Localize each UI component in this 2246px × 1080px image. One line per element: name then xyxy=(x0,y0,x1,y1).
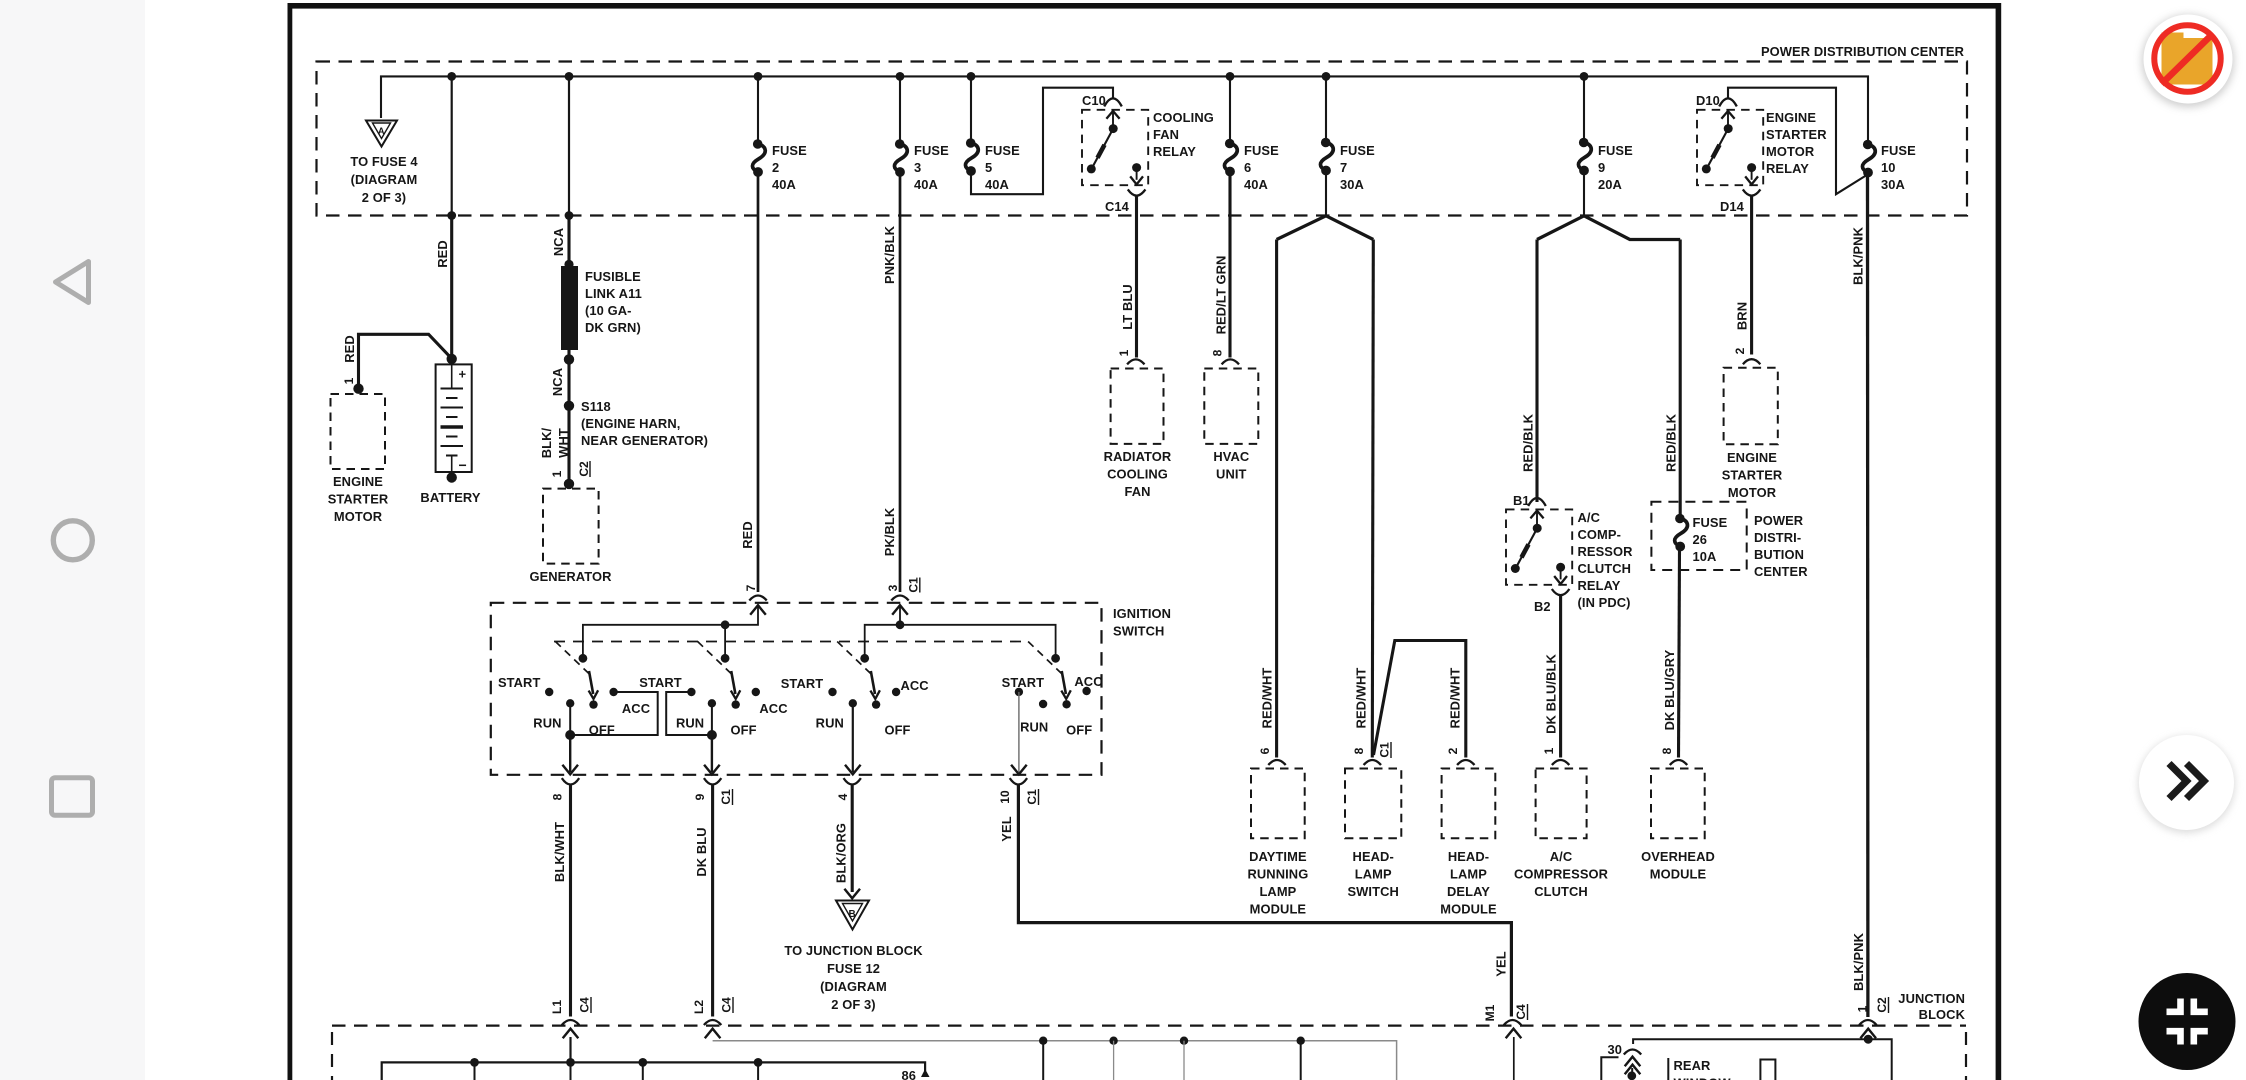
connector arc ignition pin3 xyxy=(891,596,908,601)
node pdc-exit NCA xyxy=(565,211,574,220)
svg-text:S118: S118 xyxy=(581,399,611,414)
svg-text:B: B xyxy=(849,909,856,920)
fuse 26 10A xyxy=(1675,514,1688,552)
svg-text:FUSE: FUSE xyxy=(985,143,1020,158)
svg-text:SWITCH: SWITCH xyxy=(1347,884,1398,899)
svg-text:2 OF 3): 2 OF 3) xyxy=(362,190,406,205)
svg-text:RED/WHT: RED/WHT xyxy=(1448,668,1463,729)
svg-text:FUSIBLE: FUSIBLE xyxy=(585,269,641,284)
wire RED/BLK to A/C compressor clutch relay xyxy=(1535,240,1538,503)
node bus-F7 xyxy=(1322,72,1331,81)
svg-text:ENGINE: ENGINE xyxy=(1766,110,1816,125)
svg-text:8: 8 xyxy=(551,793,565,800)
svg-text:IGNITION: IGNITION xyxy=(1113,606,1171,621)
wire M1 continues down xyxy=(1513,1037,1515,1080)
svg-text:COMPRESSOR: COMPRESSOR xyxy=(1514,867,1609,882)
android recents button xyxy=(52,778,93,816)
svg-text:ACC: ACC xyxy=(900,678,928,693)
svg-text:STARTER: STARTER xyxy=(328,492,389,507)
svg-text:RADIATOR: RADIATOR xyxy=(1104,449,1172,464)
svg-text:HEAD-: HEAD- xyxy=(1353,849,1394,864)
fuse 7 30A xyxy=(1325,76,1327,141)
svg-text:RELAY: RELAY xyxy=(1578,578,1621,593)
svg-text:2: 2 xyxy=(1446,747,1460,754)
svg-text:10: 10 xyxy=(998,790,1012,804)
svg-text:D14: D14 xyxy=(1720,199,1745,214)
android back button xyxy=(56,262,89,303)
svg-text:(ENGINE HARN,: (ENGINE HARN, xyxy=(581,416,680,431)
svg-text:8: 8 xyxy=(1660,747,1674,754)
splice S118 xyxy=(564,401,574,411)
svg-text:LAMP: LAMP xyxy=(1355,867,1392,882)
fuse 10 30A xyxy=(1862,140,1875,178)
svg-text:ENGINE: ENGINE xyxy=(1727,450,1777,465)
svg-text:C1: C1 xyxy=(1025,789,1039,805)
wire BLK/ORG ignition to off-page B xyxy=(851,785,854,892)
svg-text:40A: 40A xyxy=(914,177,938,192)
a/c compressor clutch box xyxy=(1552,760,1569,765)
svg-text:MODULE: MODULE xyxy=(1650,867,1707,882)
node jb bus L1 xyxy=(566,1058,575,1067)
svg-text:4: 4 xyxy=(836,793,850,800)
double-chevron icon xyxy=(2169,764,2187,799)
node ignition feed w2 tap xyxy=(721,620,730,629)
rear window defogger box fragments xyxy=(1667,1058,1669,1080)
fab collapse button disc xyxy=(2139,973,2236,1070)
wire RED bus to battery xyxy=(451,76,453,215)
svg-text:40A: 40A xyxy=(1244,177,1268,192)
wire DK BLU/BLK relay B2 to a/c clutch xyxy=(1559,596,1562,758)
svg-text:B2: B2 xyxy=(1534,599,1551,614)
android sidebar xyxy=(0,0,145,1080)
svg-text:START: START xyxy=(639,675,682,690)
svg-text:RED: RED xyxy=(740,521,755,549)
svg-text:YEL: YEL xyxy=(999,816,1014,841)
svg-text:1: 1 xyxy=(550,470,564,477)
wire RED battery to engine starter motor xyxy=(359,334,453,388)
svg-text:BRN: BRN xyxy=(1735,302,1750,330)
svg-text:7: 7 xyxy=(1340,160,1347,175)
svg-text:FUSE: FUSE xyxy=(1881,143,1916,158)
page frame right border xyxy=(1996,3,2002,1080)
svg-text:FUSE: FUSE xyxy=(1340,143,1375,158)
svg-text:RUN: RUN xyxy=(816,716,844,731)
svg-text:6: 6 xyxy=(1244,160,1251,175)
svg-text:FUSE: FUSE xyxy=(772,143,807,158)
radiator cooling fan box xyxy=(1111,369,1164,444)
svg-text:C4: C4 xyxy=(1514,1004,1528,1020)
svg-text:REAR: REAR xyxy=(1674,1058,1712,1073)
svg-text:30: 30 xyxy=(1607,1042,1622,1057)
wire LT BLU relay C14 to radiator cooling fan xyxy=(1135,196,1138,358)
svg-text:JUNCTION: JUNCTION xyxy=(1898,991,1965,1006)
svg-text:LAMP: LAMP xyxy=(1450,867,1487,882)
svg-text:(IN PDC): (IN PDC) xyxy=(1578,595,1631,610)
svg-text:BLK/PNK: BLK/PNK xyxy=(1851,226,1866,285)
connector arc ignition pin10 out xyxy=(1010,778,1027,784)
svg-text:RED/BLK: RED/BLK xyxy=(1521,413,1536,472)
svg-text:DELAY: DELAY xyxy=(1447,884,1490,899)
node bus-F3 xyxy=(896,72,905,81)
wire RED/WHT to head-lamp switch xyxy=(1372,240,1373,758)
svg-text:3: 3 xyxy=(886,584,900,591)
svg-text:FUSE 12: FUSE 12 xyxy=(827,961,880,976)
fab next-page button halo xyxy=(2138,736,2235,833)
node battery plus terminal xyxy=(447,354,457,364)
arrow into ignition pin3 xyxy=(892,605,908,615)
svg-text:+: + xyxy=(459,367,467,382)
wire RED/WHT to daytime running lamp module xyxy=(1275,240,1278,758)
svg-text:NCA: NCA xyxy=(551,228,566,256)
junction block dashed boundary xyxy=(332,1024,1966,1026)
node bus-NCA xyxy=(565,72,574,81)
wire RED fuse2 to ignition switch pin7 xyxy=(757,174,760,592)
svg-text:BLOCK: BLOCK xyxy=(1919,1007,1966,1022)
svg-text:HVAC: HVAC xyxy=(1213,449,1249,464)
node jb bus 4 xyxy=(754,1058,763,1067)
node bus-F9 xyxy=(1580,72,1589,81)
svg-text:DISTRI-: DISTRI- xyxy=(1754,530,1801,545)
svg-text:LT BLU: LT BLU xyxy=(1120,284,1135,329)
svg-text:A/C: A/C xyxy=(1578,510,1601,525)
power distribution center (fuse 26) box xyxy=(1651,502,1746,570)
svg-text:RED/BLK: RED/BLK xyxy=(1664,413,1679,472)
connector arc ignition pin7 xyxy=(749,596,766,601)
wire DK BLU/GRY fuse26 to overhead module xyxy=(1679,548,1680,758)
svg-text:BLK/PNK: BLK/PNK xyxy=(1851,932,1866,991)
svg-text:A/C: A/C xyxy=(1550,849,1573,864)
svg-text:SWITCH: SWITCH xyxy=(1113,624,1164,639)
svg-text:BATTERY: BATTERY xyxy=(420,490,480,505)
fuse 3 40A xyxy=(899,76,901,143)
svg-text:FUSE: FUSE xyxy=(1598,143,1633,158)
svg-text:PK/BLK: PK/BLK xyxy=(882,507,897,556)
svg-text:ENGINE: ENGINE xyxy=(333,474,383,489)
svg-text:20A: 20A xyxy=(1598,177,1622,192)
engine starter motor (right) box xyxy=(1724,368,1778,444)
svg-text:RUN: RUN xyxy=(676,716,704,731)
connector arc M1 xyxy=(1504,1020,1521,1025)
svg-text:RED: RED xyxy=(435,240,450,268)
small component stub xyxy=(1760,1060,1775,1080)
svg-text:ACC: ACC xyxy=(622,701,650,716)
svg-text:OFF: OFF xyxy=(1066,723,1092,738)
wire BLK/WHT ignition to junction block L1 xyxy=(569,785,572,1017)
android home button xyxy=(53,521,92,560)
battery xyxy=(436,364,472,472)
ignition feed wire 2 xyxy=(865,606,900,655)
svg-text:NCA: NCA xyxy=(550,368,565,396)
svg-text:RED/WHT: RED/WHT xyxy=(1260,668,1275,729)
overhead module box xyxy=(1670,760,1687,765)
svg-text:RED/WHT: RED/WHT xyxy=(1354,668,1369,729)
svg-text:FAN: FAN xyxy=(1153,127,1179,142)
svg-text:RED: RED xyxy=(342,335,357,363)
fuse 5 40A xyxy=(970,76,972,142)
node ignition feed w3 tap xyxy=(896,620,905,629)
wire BRN relay D14 to engine starter motor xyxy=(1750,196,1753,355)
arrow into ignition pin7 xyxy=(750,605,766,615)
engine starter motor (left) box xyxy=(331,394,386,469)
svg-text:RUN: RUN xyxy=(1020,720,1048,735)
node jb bus 3 xyxy=(638,1058,647,1067)
svg-text:26: 26 xyxy=(1693,532,1708,547)
fuse 6 40A xyxy=(1229,76,1231,142)
node generator terminal xyxy=(564,479,574,489)
fuse 9 20A xyxy=(1583,76,1585,141)
svg-text:ACC: ACC xyxy=(759,701,787,716)
svg-text:START: START xyxy=(781,676,824,691)
junction block thin bus from L2 xyxy=(713,1041,1397,1080)
svg-text:D10: D10 xyxy=(1696,93,1720,108)
svg-text:40A: 40A xyxy=(985,177,1009,192)
node fusible link bottom xyxy=(564,354,574,364)
svg-text:C2: C2 xyxy=(577,461,591,477)
svg-text:ACC: ACC xyxy=(1074,674,1102,689)
connector arc radiator cooling fan xyxy=(1127,359,1144,364)
svg-text:RESSOR: RESSOR xyxy=(1578,544,1634,559)
svg-text:MODULE: MODULE xyxy=(1440,902,1497,917)
svg-text:MOTOR: MOTOR xyxy=(334,509,383,524)
svg-text:POWER: POWER xyxy=(1754,513,1804,528)
generator box xyxy=(543,489,599,564)
svg-text:(DIAGRAM: (DIAGRAM xyxy=(351,172,418,187)
svg-text:8: 8 xyxy=(1352,747,1366,754)
wire RED/BLK to fuse 26 xyxy=(1679,240,1682,520)
svg-text:DK BLU/GRY: DK BLU/GRY xyxy=(1662,649,1677,730)
node thin bus a xyxy=(1039,1037,1047,1045)
wire fuse9 split xyxy=(1583,173,1585,216)
relay U-C10 cooling fan relay xyxy=(1082,98,1148,195)
power distribution center dashed box xyxy=(317,62,1968,216)
svg-text:DK BLU/BLK: DK BLU/BLK xyxy=(1544,654,1559,734)
fusible link A11 xyxy=(561,266,578,350)
connector arc ignition pin8 out xyxy=(562,778,579,784)
svg-text:C10: C10 xyxy=(1082,93,1106,108)
node bus-F5 xyxy=(967,72,976,81)
off-page connector A to fuse 4 xyxy=(366,121,397,147)
node bus-F6 xyxy=(1226,72,1235,81)
connector arc ignition pin4 out xyxy=(844,778,861,784)
svg-text:YEL: YEL xyxy=(1494,951,1509,976)
svg-text:8: 8 xyxy=(1211,349,1225,356)
svg-text:BUTION: BUTION xyxy=(1754,547,1804,562)
junction block lower-left bus xyxy=(382,1062,925,1080)
svg-text:C1: C1 xyxy=(907,577,921,593)
wire PNK/BLK fuse3 to ignition switch pin3 xyxy=(899,174,902,592)
svg-text:OVERHEAD: OVERHEAD xyxy=(1641,849,1715,864)
fuse 2 40A xyxy=(757,76,759,143)
node thin bus d xyxy=(1297,1037,1305,1045)
svg-text:5: 5 xyxy=(985,160,992,175)
connector arc HVAC unit xyxy=(1222,359,1239,364)
svg-text:OFF: OFF xyxy=(731,723,757,738)
svg-text:HEAD-: HEAD- xyxy=(1448,849,1489,864)
svg-text:FUSE: FUSE xyxy=(1244,143,1279,158)
node starter terminal xyxy=(353,384,363,394)
wire RED/LT GRN fuse6 to HVAC unit xyxy=(1228,174,1231,358)
svg-text:10: 10 xyxy=(1881,160,1896,175)
off-page connector B to junction block fuse 12 xyxy=(836,901,869,930)
svg-text:9: 9 xyxy=(1598,160,1605,175)
node BLK/PNK junction xyxy=(1867,1036,1869,1039)
ignition feed wire 1 xyxy=(583,606,758,655)
red prohibition slash xyxy=(2162,34,2214,85)
svg-text:C1: C1 xyxy=(719,789,733,805)
svg-text:RUN: RUN xyxy=(533,716,561,731)
svg-text:UNIT: UNIT xyxy=(1216,467,1246,482)
svg-text:40A: 40A xyxy=(772,177,796,192)
svg-text:MOTOR: MOTOR xyxy=(1728,485,1777,500)
node pdc-exit RED xyxy=(447,211,456,220)
top feed bus wire xyxy=(381,76,1868,141)
svg-text:CLUTCH: CLUTCH xyxy=(1578,561,1632,576)
wire L1 into junction bus xyxy=(569,1037,571,1062)
svg-text:MODULE: MODULE xyxy=(1250,902,1307,917)
svg-text:RELAY: RELAY xyxy=(1766,161,1809,176)
connector arc ignition pin9 out xyxy=(704,778,721,784)
connector arc L2 xyxy=(704,1020,721,1025)
svg-text:STARTER: STARTER xyxy=(1722,468,1783,483)
fab folder-hide button disc xyxy=(2144,15,2233,104)
svg-text:COOLING: COOLING xyxy=(1153,110,1214,125)
svg-text:C14: C14 xyxy=(1105,199,1130,214)
wire YEL ignition to junction block M1 xyxy=(1018,785,1511,1017)
daytime running lamp module box xyxy=(1268,760,1285,765)
node bus-RED xyxy=(447,72,456,81)
svg-text:BLK/: BLK/ xyxy=(539,427,554,458)
head-lamp switch box xyxy=(1364,760,1381,765)
HVAC unit box xyxy=(1204,369,1258,444)
ignition wafer 2 xyxy=(639,642,787,775)
svg-text:1: 1 xyxy=(342,377,356,384)
svg-text:MOTOR: MOTOR xyxy=(1766,144,1815,159)
ignition wafer 4 xyxy=(1002,642,1103,775)
svg-text:POWER DISTRIBUTION CENTER: POWER DISTRIBUTION CENTER xyxy=(1761,44,1965,59)
svg-text:9: 9 xyxy=(693,793,707,800)
svg-text:M1: M1 xyxy=(1483,1004,1497,1021)
svg-text:2: 2 xyxy=(772,160,779,175)
svg-text:RELAY: RELAY xyxy=(1153,144,1196,159)
ignition wafer 3 xyxy=(781,642,929,775)
svg-text:10A: 10A xyxy=(1693,549,1717,564)
ignition switch box xyxy=(491,603,1102,775)
svg-text:BLK/ORG: BLK/ORG xyxy=(834,823,849,883)
svg-text:C4: C4 xyxy=(578,997,592,1013)
mechanical linkage dashed line xyxy=(554,641,1029,643)
svg-text:L1: L1 xyxy=(550,1000,564,1014)
svg-text:1: 1 xyxy=(1542,747,1556,754)
svg-text:A: A xyxy=(378,126,385,136)
svg-text:CLUTCH: CLUTCH xyxy=(1534,884,1588,899)
folder icon xyxy=(2162,33,2213,85)
svg-text:COMP-: COMP- xyxy=(1578,527,1621,542)
svg-text:30A: 30A xyxy=(1340,177,1364,192)
svg-text:B1: B1 xyxy=(1513,493,1530,508)
svg-text:FUSE: FUSE xyxy=(1693,515,1728,530)
wire DK BLU ignition to junction block L2 xyxy=(711,785,714,1017)
wire BLK/PNK fuse10 to junction block xyxy=(1866,175,1870,1017)
svg-text:FUSE: FUSE xyxy=(914,143,949,158)
svg-text:COOLING: COOLING xyxy=(1107,467,1168,482)
relay U-B1 a/c compressor clutch relay xyxy=(1506,498,1572,595)
svg-text:C1: C1 xyxy=(1378,742,1392,758)
svg-text:C2: C2 xyxy=(1875,997,1889,1013)
fab folder-hide button halo xyxy=(2142,15,2235,108)
connector arc engine starter motor xyxy=(1743,359,1760,364)
wire fuse10 to starter relay coil xyxy=(1728,88,1866,195)
junction block internal bus (right) xyxy=(1633,1039,1892,1080)
svg-text:START: START xyxy=(1002,675,1045,690)
svg-text:86: 86 xyxy=(901,1068,916,1080)
svg-text:(10 GA-: (10 GA- xyxy=(585,303,632,318)
svg-text:C4: C4 xyxy=(720,997,734,1013)
page frame top border xyxy=(288,3,2002,9)
svg-text:6: 6 xyxy=(1258,747,1272,754)
head-lamp delay module box xyxy=(1457,760,1474,765)
wire fuse7 split xyxy=(1325,173,1327,216)
svg-text:CENTER: CENTER xyxy=(1754,564,1808,579)
node jb bus 1 xyxy=(470,1058,479,1067)
svg-text:1: 1 xyxy=(1117,349,1131,356)
svg-text:TO FUSE 4: TO FUSE 4 xyxy=(350,154,418,169)
svg-text:−: − xyxy=(459,457,467,473)
svg-text:DK BLU: DK BLU xyxy=(694,827,709,876)
svg-text:RUNNING: RUNNING xyxy=(1247,867,1308,882)
svg-text:WINDOW: WINDOW xyxy=(1674,1076,1732,1080)
svg-text:WHT: WHT xyxy=(556,428,571,458)
relay U-D10 engine starter motor relay xyxy=(1697,98,1763,195)
svg-text:DAYTIME: DAYTIME xyxy=(1249,849,1307,864)
collapse icon xyxy=(2167,999,2181,1012)
svg-text:NEAR GENERATOR): NEAR GENERATOR) xyxy=(581,433,708,448)
svg-text:LINK A11: LINK A11 xyxy=(585,286,642,301)
svg-text:RED/LT GRN: RED/LT GRN xyxy=(1214,256,1229,335)
connector arc L1 xyxy=(562,1020,579,1025)
node fusible link top xyxy=(564,260,573,269)
svg-text:BLK/WHT: BLK/WHT xyxy=(552,822,567,882)
page frame left border xyxy=(288,3,293,1080)
svg-text:7: 7 xyxy=(744,584,758,591)
red prohibition ring xyxy=(2154,25,2220,91)
svg-text:TO JUNCTION BLOCK: TO JUNCTION BLOCK xyxy=(784,943,923,958)
fab next-page button disc xyxy=(2139,735,2234,830)
svg-text:2 OF 3): 2 OF 3) xyxy=(831,997,875,1012)
wire BLK/WHT S118 to generator xyxy=(567,406,570,484)
svg-text:PNK/BLK: PNK/BLK xyxy=(882,225,897,284)
svg-text:START: START xyxy=(498,675,541,690)
svg-text:GENERATOR: GENERATOR xyxy=(529,569,612,584)
svg-text:1: 1 xyxy=(1856,1005,1870,1012)
svg-text:30A: 30A xyxy=(1881,177,1905,192)
wire feed to wafer2 pivot xyxy=(724,625,726,655)
node bus-F2 xyxy=(754,72,763,81)
wire RED/WHT tap to head-lamp delay module xyxy=(1374,641,1466,758)
svg-text:(DIAGRAM: (DIAGRAM xyxy=(820,979,887,994)
svg-text:DK GRN): DK GRN) xyxy=(585,320,641,335)
node battery minus terminal xyxy=(447,472,457,482)
node thin bus b xyxy=(1109,1037,1117,1045)
ignition wafer 1 xyxy=(498,642,658,775)
wire fuse5 to cooling fan relay xyxy=(971,88,1113,195)
svg-text:L2: L2 xyxy=(692,1000,706,1014)
wire NCA to fusible link xyxy=(568,76,570,215)
svg-text:FAN: FAN xyxy=(1124,484,1150,499)
svg-text:OFF: OFF xyxy=(884,723,910,738)
svg-text:STARTER: STARTER xyxy=(1766,127,1827,142)
wire NCA fusible link to S118 xyxy=(567,350,570,406)
node thin bus c xyxy=(1180,1037,1188,1045)
